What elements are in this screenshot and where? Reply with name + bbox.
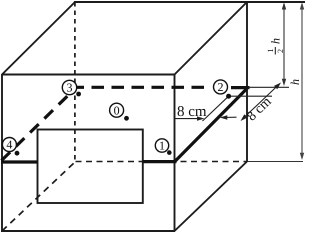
dimension: half-h vertical line with arrows: [282, 2, 286, 86]
wire: top-left depth edge: [2, 2, 75, 75]
wire: thick section line on front face, right part: [143, 160, 177, 163]
wire: extension line from point 2 dot to the right: [229, 95, 272, 97]
wire: bottom extension line on right: [248, 161, 303, 163]
dimension: h vertical line with arrows: [300, 2, 304, 160]
wire: thick section line on front face, left part: [1, 160, 38, 163]
svg-text:8 cm: 8 cm: [177, 104, 207, 120]
wire: thick section diagonal on right face: [175, 89, 247, 162]
wire: hidden bottom-left depth edge (dashed): [2, 162, 76, 232]
svg-text:2: 2: [276, 49, 285, 53]
dimension: 8 cm horizontal arrow right segment: [220, 115, 237, 119]
wire: bottom-right depth edge: [175, 162, 248, 232]
wire: top-right depth edge: [175, 2, 248, 75]
dimension: rotated 8 cm arrow along right face: [241, 83, 282, 122]
node 4: circled point 4: [2, 138, 19, 156]
wire: extension line at section level on right: [248, 86, 289, 88]
node 1: circled point 1: [155, 139, 171, 155]
svg-text:3: 3: [67, 81, 73, 95]
svg-text:1: 1: [159, 139, 165, 153]
wire: hidden back-bottom edge (dashed): [76, 161, 248, 163]
svg-text:h: h: [269, 38, 283, 44]
wire: thick hidden section diagonal on left face (heavy dashed): [2, 94, 71, 161]
node 2: circled point 2: [214, 80, 232, 99]
svg-text:2: 2: [218, 80, 224, 94]
node 3: circled point 3: [62, 80, 81, 96]
wire: thin parallel line through point 2 dot: [203, 96, 229, 121]
wire: back-right vertical edge: [246, 2, 248, 162]
svg-text:h: h: [288, 79, 302, 85]
wire: hidden back-left vertical edge (dashed): [74, 2, 76, 162]
wire: thick section line solid end at back-right corner: [231, 86, 250, 89]
dimension: 8 cm horizontal arrow left segment: [175, 116, 205, 120]
node: inner rectangle (small box front face): [38, 130, 143, 204]
wire: back top edge of box with extension line to dimension lines: [74, 1, 305, 3]
wire: thick hidden section line on back face (heavy dashed): [72, 86, 210, 89]
node: front face of cuboid: [1, 74, 175, 231]
label: 1/2 h (rotated): [266, 38, 285, 55]
svg-text:0: 0: [114, 103, 120, 117]
node 0: circled point 0: [110, 103, 129, 121]
svg-text:4: 4: [6, 138, 12, 152]
svg-text:1: 1: [266, 49, 275, 53]
